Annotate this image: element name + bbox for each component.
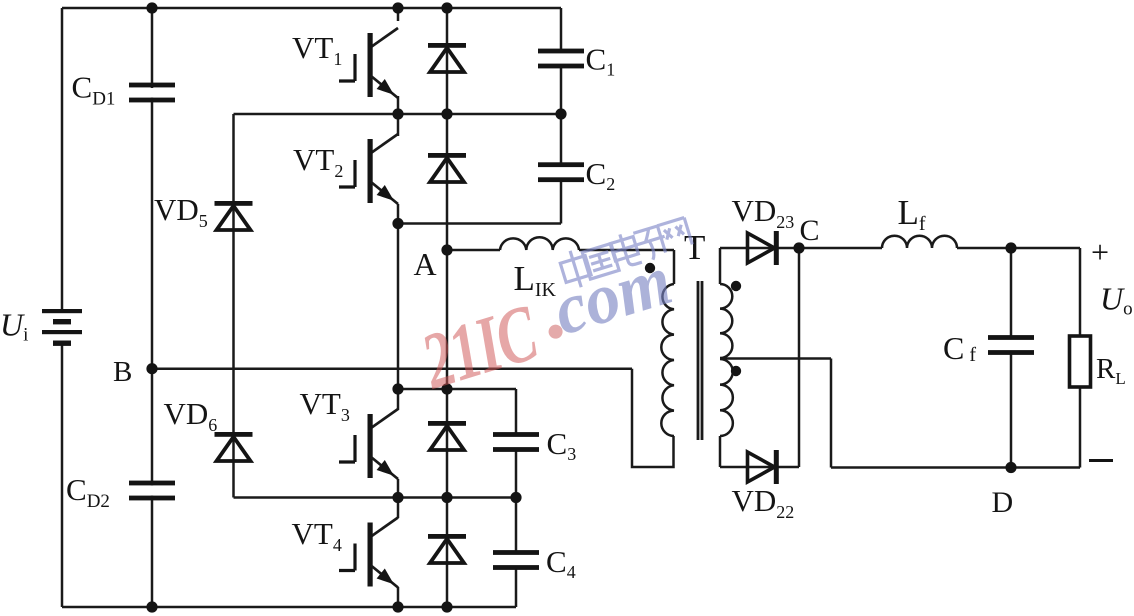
svg-text:CD2: CD2 bbox=[66, 472, 110, 512]
watermark chinese characters bbox=[557, 215, 695, 291]
svg-text:VT2: VT2 bbox=[293, 142, 343, 181]
wire rail VT1-VT2 junction bbox=[234, 113, 562, 116]
svg-text:C2: C2 bbox=[586, 156, 616, 194]
wire VD22 branch bbox=[720, 466, 799, 469]
svg-text:VD5: VD5 bbox=[154, 192, 208, 231]
capacitor C3 bbox=[493, 432, 539, 452]
diode VD23 bbox=[748, 231, 779, 265]
wire rail node B bbox=[152, 367, 632, 370]
diode D4 antiparallel VT4 bbox=[428, 534, 466, 563]
svg-text:RL: RL bbox=[1096, 353, 1126, 388]
wire center tap bbox=[720, 357, 831, 360]
svg-text:VD23: VD23 bbox=[732, 193, 795, 232]
capacitor Cf bbox=[988, 335, 1034, 355]
transistor VT4 bbox=[339, 518, 398, 588]
inductor L1K coil bbox=[500, 237, 579, 250]
diode VD5 bbox=[215, 201, 253, 230]
wire rail VT3 emitter bbox=[234, 496, 517, 499]
label minus bbox=[1089, 459, 1113, 462]
svg-text:Ui: Ui bbox=[0, 307, 28, 346]
capacitor C1 bbox=[538, 49, 584, 69]
wire C1 C2 column bbox=[560, 8, 563, 224]
svg-text:C3: C3 bbox=[547, 426, 577, 464]
svg-text:Uo: Uo bbox=[1100, 281, 1133, 320]
svg-text:A: A bbox=[414, 246, 437, 282]
svg-text:B: B bbox=[113, 356, 132, 388]
svg-text:+: + bbox=[1091, 234, 1109, 270]
transistor VT2 bbox=[339, 134, 398, 204]
svg-text:VT1: VT1 bbox=[292, 30, 342, 69]
wire bottom rail bbox=[62, 606, 516, 609]
svg-text:T: T bbox=[684, 228, 705, 267]
svg-text:D: D bbox=[992, 486, 1014, 519]
svg-text:VT3: VT3 bbox=[300, 386, 350, 425]
wire Cf column bbox=[1010, 248, 1013, 468]
diode D3 antiparallel VT3 bbox=[428, 421, 466, 450]
wire secondary bottom lead bbox=[719, 436, 722, 467]
wire secondary output top bbox=[720, 247, 1080, 250]
svg-text:CD1: CD1 bbox=[72, 70, 116, 110]
wire output bottom rail bbox=[831, 466, 1080, 469]
inductor Lf coil bbox=[882, 236, 957, 248]
wire rail VT3 collector bbox=[398, 388, 516, 391]
wire primary top lead bbox=[673, 250, 676, 284]
wire center tap down bbox=[830, 359, 833, 468]
svg-text:VD6: VD6 bbox=[164, 396, 218, 435]
wire node A to transformer bbox=[447, 249, 674, 252]
capacitor C2 bbox=[538, 162, 584, 182]
wire RL column bbox=[1079, 248, 1082, 468]
svg-text:C: C bbox=[800, 214, 820, 247]
wire left input column bbox=[61, 8, 64, 607]
capacitor CD2 bbox=[129, 481, 175, 501]
capacitor CD1 bbox=[129, 83, 175, 103]
svg-text:VD22: VD22 bbox=[732, 483, 795, 522]
wire B rail to primary bottom bbox=[632, 369, 674, 467]
diode VD6 bbox=[215, 432, 253, 461]
svg-text:C1: C1 bbox=[586, 42, 616, 80]
transistor VT3 bbox=[339, 409, 398, 479]
diode D1 antiparallel VT1 bbox=[428, 43, 466, 72]
transformer polarity dots bbox=[645, 263, 741, 376]
svg-text:21IC: 21IC bbox=[412, 288, 549, 406]
diode D2 antiparallel VT2 bbox=[428, 153, 466, 182]
transformer T secondary lower winding bbox=[720, 359, 733, 436]
wire freewheel-diode column bbox=[446, 8, 449, 607]
transformer T core bbox=[698, 281, 702, 440]
wire secondary top lead bbox=[719, 248, 722, 284]
battery Ui bbox=[42, 309, 82, 346]
wire IGBT leg column bbox=[397, 8, 400, 607]
transistor VT1 bbox=[339, 28, 398, 98]
capacitor C4 bbox=[493, 550, 539, 570]
wire VD22 cathode to node C bbox=[798, 248, 801, 467]
wire top rail bbox=[62, 7, 561, 10]
wire capacitor-divider column bbox=[151, 8, 154, 607]
svg-text:C4: C4 bbox=[546, 544, 576, 582]
wire C3 C4 column bbox=[515, 389, 518, 607]
diode VD22 bbox=[748, 450, 779, 484]
transformer T primary winding bbox=[661, 284, 674, 436]
resistor RL bbox=[1070, 336, 1091, 387]
wire rail VT2 emitter bbox=[398, 222, 561, 225]
transformer T secondary upper winding bbox=[720, 284, 732, 358]
watermark 21IC.com bbox=[405, 215, 716, 407]
wire clamp-diode column bbox=[232, 114, 235, 498]
svg-text:VT4: VT4 bbox=[292, 516, 342, 555]
svg-text:Lf: Lf bbox=[898, 193, 926, 235]
svg-text:C f: C f bbox=[943, 330, 976, 366]
